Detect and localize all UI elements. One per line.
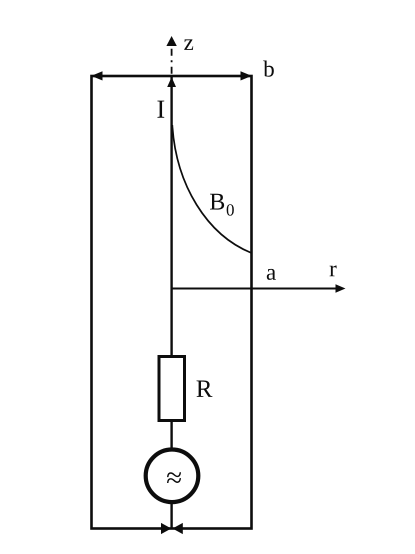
bottom current arrowhead (points right) <box>161 523 171 534</box>
label b <box>263 61 274 77</box>
z axis arrowhead <box>166 36 176 46</box>
label a <box>267 269 276 280</box>
z axis dash-dot line <box>171 49 173 76</box>
current I arrowhead (up) <box>167 77 176 87</box>
label I <box>157 101 164 118</box>
wire: AC source to bottom edge <box>170 501 172 529</box>
label r <box>330 265 337 276</box>
r axis arrowhead <box>336 284 346 293</box>
label z <box>184 39 193 50</box>
label B0 - B <box>210 194 224 210</box>
wire: resistor to AC source <box>170 421 172 452</box>
r axis line <box>172 288 337 290</box>
dimension arrowhead b left (points left) <box>91 71 102 80</box>
wire: central conductor carrying current I <box>170 76 172 355</box>
dimension arrowhead b right (points right) <box>241 71 252 80</box>
label R <box>197 381 213 397</box>
AC source circle <box>146 450 199 503</box>
rectangular circuit loop outline <box>92 76 252 529</box>
AC source approx symbol <box>167 472 181 483</box>
resistor R body <box>159 357 185 421</box>
label B0 - subscript 0 <box>227 204 234 215</box>
bottom current arrowhead (points left) <box>173 523 183 534</box>
B0 field decay curve <box>172 125 251 253</box>
